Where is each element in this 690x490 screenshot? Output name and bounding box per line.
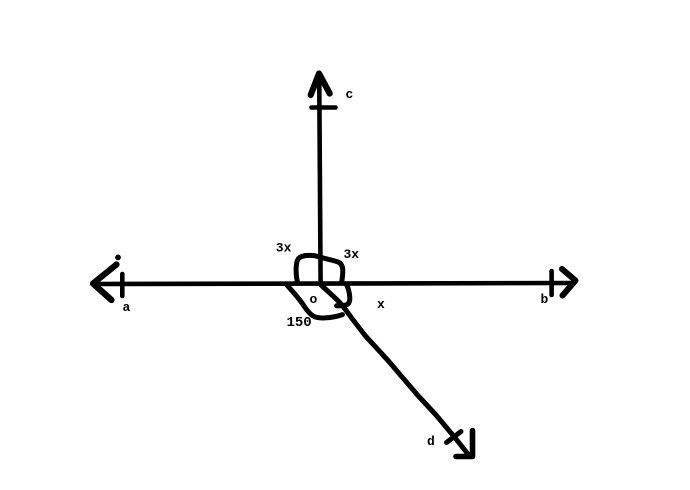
svg-text:3x: 3x bbox=[344, 247, 360, 262]
svg-text:x: x bbox=[377, 297, 385, 312]
svg-text:o: o bbox=[310, 292, 318, 307]
svg-text:d: d bbox=[427, 434, 435, 449]
svg-text:c: c bbox=[346, 87, 354, 102]
svg-text:150: 150 bbox=[287, 315, 312, 331]
svg-text:b: b bbox=[541, 292, 549, 307]
svg-text:a: a bbox=[123, 300, 131, 315]
svg-text:3x: 3x bbox=[276, 241, 292, 256]
